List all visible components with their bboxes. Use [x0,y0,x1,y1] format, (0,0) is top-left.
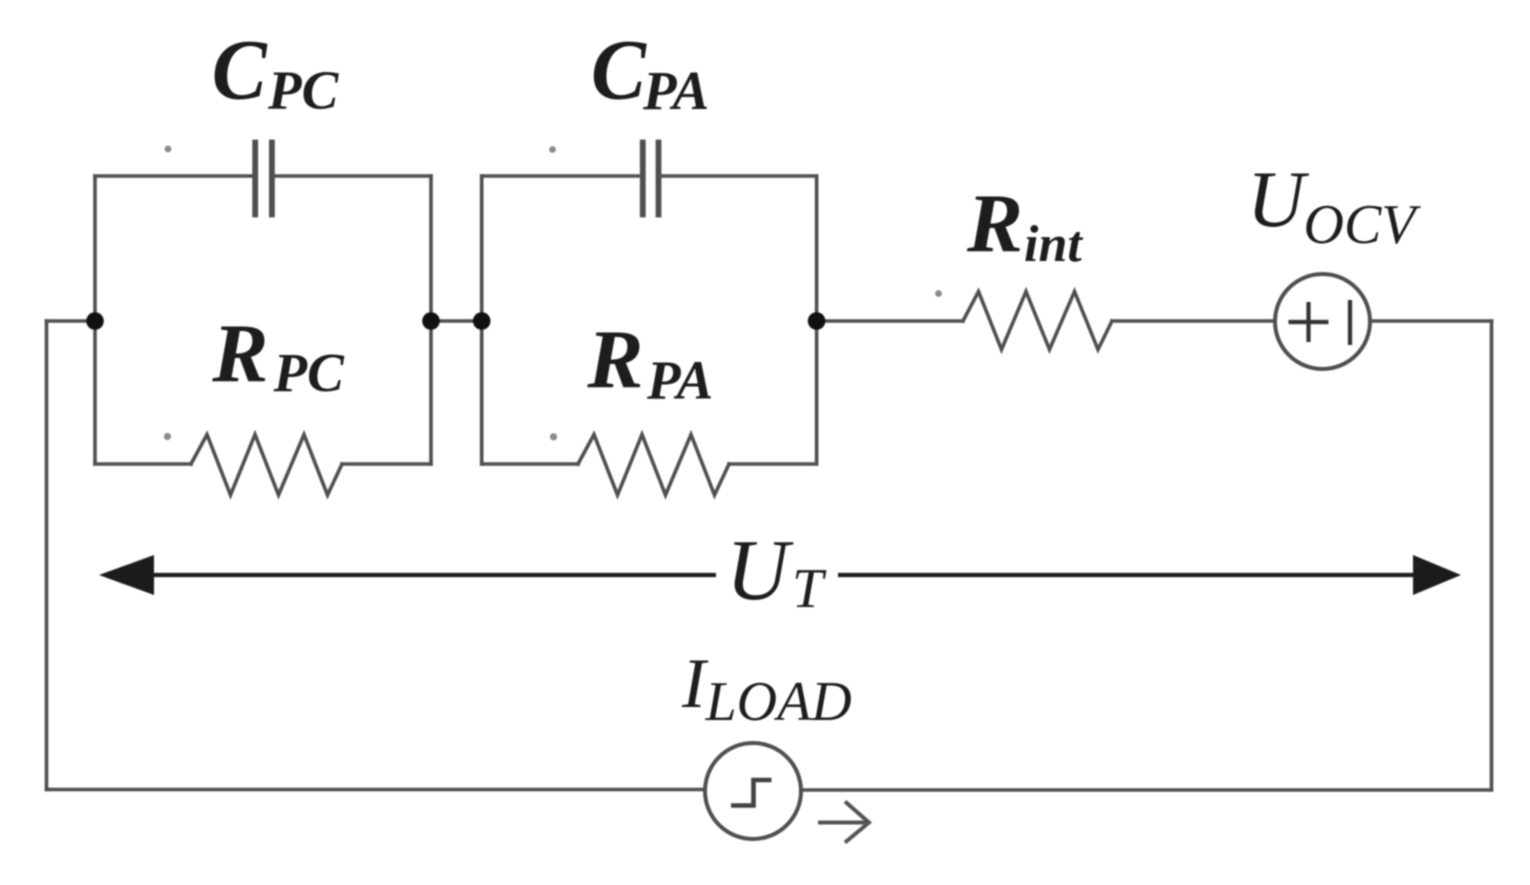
svg-text:R: R [586,314,643,407]
svg-text:LOAD: LOAD [705,671,852,733]
svg-text:R: R [211,308,268,401]
svg-text:PC: PC [267,60,340,121]
svg-text:PA: PA [646,350,713,411]
svg-text:int: int [1024,216,1083,273]
svg-text:OCV: OCV [1304,194,1422,256]
svg-text:C: C [591,22,648,118]
svg-text:U: U [726,521,794,618]
svg-text:PC: PC [273,342,346,403]
svg-text:R: R [966,178,1023,271]
svg-text:PA: PA [642,60,709,121]
svg-text:T: T [792,558,827,620]
svg-text:U: U [1247,156,1310,244]
svg-text:C: C [212,22,269,118]
